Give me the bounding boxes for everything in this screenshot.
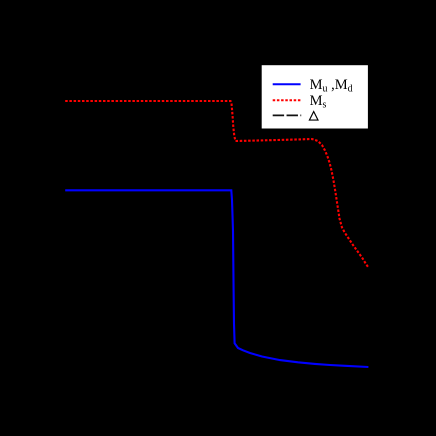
legend sample line: Delta (black dashed) [273,114,302,116]
M_u, M_d curve (blue solid) [65,190,368,367]
M_s curve (red dotted) [65,101,368,268]
Delta curve (black dashed, invisible on black background) [66,369,369,371]
legend box [262,65,368,128]
plot frame (black, invisible on black background) [66,15,369,393]
legend label Delta [309,112,318,121]
legend sample line: M_u,M_d (blue solid) [273,83,301,85]
legend sample line: M_s (red dotted) [273,99,302,101]
